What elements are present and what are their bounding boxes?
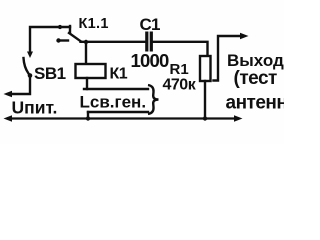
resistor R1 body: [200, 56, 211, 81]
svg-text:антенны): антенны): [226, 93, 285, 114]
relay coil K1 box: [76, 64, 106, 78]
switch K1.1 lower throw stub: [58, 39, 68, 41]
wire bottom line drop to rail: [87, 112, 89, 118]
svg-text:1000: 1000: [131, 50, 169, 71]
pushbutton SB1 blade: [24, 58, 29, 74]
wire drop from node to relay coil K1: [85, 42, 87, 64]
svg-text:С1: С1: [140, 15, 160, 34]
wire Lсв.ген. bottom line: [88, 111, 148, 113]
node junction dot on bottom rail right: [203, 116, 207, 120]
svg-text:R1: R1: [170, 61, 189, 78]
capacitor C1 right plate: [150, 32, 153, 52]
svg-text:К1.1: К1.1: [79, 16, 109, 32]
wire main horizontal from switch to capacitor C1: [81, 41, 146, 43]
switch K1.1 blade: [69, 33, 81, 42]
arrowhead output pointing right: [240, 33, 249, 39]
node junction dot at relay drop: [84, 40, 88, 44]
svg-text:Lсв.ген.: Lсв.ген.: [80, 93, 147, 112]
svg-text:К1: К1: [110, 66, 128, 83]
pushbutton SB1 bottom contact dot: [28, 73, 33, 78]
wire capacitor to resistor R1 corner: [153, 42, 208, 56]
capacitor C1 left plate: [145, 32, 148, 52]
wire output tap vertical with hook: [214, 36, 243, 81]
wire Lсв.ген. top line: [84, 88, 148, 90]
brace grouping Lсв.ген. lines: [148, 85, 159, 114]
svg-text:SB1: SB1: [34, 64, 66, 83]
switch K1.1 lower throw terminal dot: [56, 38, 60, 42]
node junction dot on top wire: [58, 25, 62, 29]
wire relay coil bottom lead: [86, 78, 88, 89]
bottom rail wire: [8, 117, 238, 119]
wire top-left L from SB1 up to switch K1.1: [30, 27, 70, 53]
arrowhead bottom rail right: [234, 115, 243, 121]
arrowhead bottom rail left: [4, 115, 13, 121]
wire switch upper fixed contact drop: [69, 26, 71, 33]
svg-text:Uпит.: Uпит.: [12, 98, 58, 118]
arrowhead Uпит pointing left: [4, 91, 13, 97]
node junction dot on bottom rail left: [86, 116, 90, 120]
wire resistor bottom to rail: [204, 81, 206, 118]
wire SB1 down and left to Uпит terminal: [8, 76, 30, 95]
svg-text:(тест: (тест: [234, 68, 278, 89]
svg-text:470к: 470к: [163, 77, 197, 94]
pushbutton SB1 top contact arrowhead: [27, 52, 33, 59]
